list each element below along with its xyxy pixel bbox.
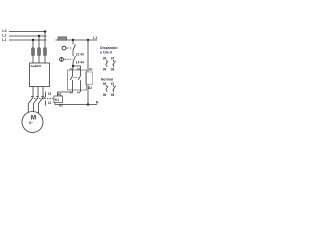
motor M1 [22, 112, 43, 133]
soft starter box U1 [30, 63, 50, 87]
wire starter out T3 [39, 87, 44, 114]
contact 97-98 tripped closed [113, 60, 116, 67]
wire starter out T1 [28, 87, 33, 113]
wire L1 bus [9, 39, 47, 41]
contact start S2 [73, 56, 75, 62]
svg-text:L1: L1 [2, 38, 6, 42]
junction hold branch [72, 65, 74, 67]
mech link S1 [68, 47, 73, 49]
trip contact 14 lead [45, 101, 47, 106]
mech dashed link starter to relay [34, 98, 54, 100]
trip contact blade [43, 97, 45, 99]
junction on L2 bus [38, 35, 40, 37]
trip contact 15 lead [45, 92, 47, 97]
wire fuse3 to starter [44, 56, 46, 64]
svg-text:14 44: 14 44 [76, 60, 84, 64]
fuse F3 [44, 48, 47, 56]
svg-text:98: 98 [111, 93, 115, 97]
terminal tick T3 [41, 96, 44, 98]
junction control branch [72, 39, 74, 41]
wire drop phase 3 [44, 32, 46, 48]
mech link S2 [65, 58, 72, 60]
wire start to node [72, 62, 74, 70]
junction coil branch [87, 39, 89, 41]
svg-text:15: 15 [48, 92, 52, 96]
junction on L1 bus [32, 39, 34, 41]
svg-text:98: 98 [111, 68, 115, 72]
svg-text:L1: L1 [93, 36, 97, 40]
contact K1 13-14 [70, 70, 73, 90]
wire starter out T2 [34, 87, 39, 112]
wire L2 bus [9, 35, 47, 37]
contact 97-98 normal open [113, 85, 116, 92]
holding contact box K1 aux [68, 70, 87, 90]
wire relay to N [55, 103, 97, 105]
contact stop S1 [73, 44, 75, 50]
wire fuse1 to starter [32, 56, 34, 64]
svg-text:96: 96 [103, 68, 107, 72]
junction on L3 bus [44, 30, 46, 32]
wire coil branch vertical [87, 40, 89, 72]
wire 44 stub [80, 90, 82, 92]
terminal tick T1 [31, 96, 33, 98]
svg-text:21 43: 21 43 [76, 52, 84, 56]
svg-text:43: 43 [77, 67, 81, 71]
wire stop lead [72, 40, 74, 44]
svg-text:A1: A1 [89, 68, 93, 72]
terminal tick T2 [36, 96, 39, 98]
svg-text:o Dis-0: o Dis-0 [100, 51, 112, 55]
wire control L1 feed [56, 39, 98, 41]
svg-text:L3: L3 [2, 29, 6, 33]
pushbutton head S2 [60, 57, 65, 62]
svg-text:N: N [96, 100, 99, 104]
contact 95-96 tripped open [106, 60, 108, 67]
contact 95-96 normal closed [106, 85, 108, 92]
relay box K1M [54, 96, 63, 103]
wire drop phase 2 [38, 36, 40, 48]
contact K1 43-44 [78, 70, 81, 90]
mech link contacts [73, 76, 78, 78]
wire hold to coil A1 [58, 90, 73, 96]
svg-text:AquBOX: AquBOX [30, 64, 41, 68]
svg-text:3~: 3~ [29, 120, 34, 125]
wire coil to N [87, 85, 89, 105]
svg-text:Disparado: Disparado [100, 46, 118, 50]
svg-text:14: 14 [48, 101, 52, 105]
wire L3 bus [9, 31, 47, 33]
fuse F4 control [58, 37, 67, 40]
junction coil to N [87, 103, 89, 105]
wire drop phase 1 [32, 40, 34, 48]
wire hold branch [73, 66, 81, 70]
svg-text:96: 96 [103, 93, 107, 97]
fuse F2 [38, 48, 41, 56]
svg-text:Normal: Normal [101, 77, 113, 81]
pushbutton head S1 [62, 46, 67, 50]
svg-text:44: 44 [77, 90, 81, 94]
svg-text:95: 95 [103, 57, 107, 61]
coil K1M [86, 72, 93, 85]
svg-text:L2: L2 [2, 34, 6, 38]
fuse F1 [32, 48, 35, 56]
svg-text:K1: K1 [55, 98, 59, 102]
wire fuse2 to starter [38, 56, 40, 64]
svg-text:95: 95 [103, 82, 107, 86]
svg-text:A2: A2 [88, 86, 92, 90]
wire between contacts [72, 50, 74, 56]
